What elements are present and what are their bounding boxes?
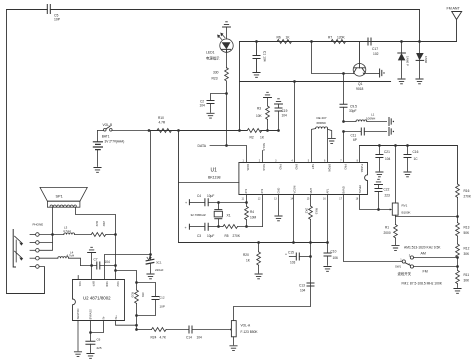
svg-text:VOL-A: VOL-A [241,323,251,327]
ground C16 [404,172,411,177]
wire ground rail y242 [179,242,328,244]
svg-text:R20: R20 [243,253,249,257]
svg-text:R1: R1 [385,226,389,230]
resistor R12 [456,244,470,267]
capacitor C7 [81,257,116,269]
ground C2 [207,113,214,118]
node junction X1 top [217,201,220,204]
capacitor C9.5 [340,74,357,122]
svg-text:R3: R3 [257,107,261,111]
wire supply drop x178 [178,131,180,243]
capacitor C6 [86,333,102,353]
wire left rail [7,10,45,294]
node junction battery rail [148,129,151,132]
transistor Q1 [353,42,379,92]
svg-text:F-123 B50K: F-123 B50K [241,330,259,334]
node junction pin13 rail [309,241,312,244]
node junction C16 [406,144,409,147]
capacitor C16 [404,146,419,172]
node contact 5 [30,265,45,269]
svg-text:MUT: MUT [309,187,313,193]
op-chip U1 BK1198 body [208,163,368,195]
svg-text:C1 104: C1 104 [263,51,267,62]
wire pin8 riser to shield bus [359,146,361,163]
node junction DATA [225,144,228,147]
capacitor C2 [200,94,227,113]
svg-text:TUNE2: TUNE2 [358,184,362,193]
resistor R23 [212,52,229,93]
node junction R4 bottom [245,225,248,228]
potentiometer VOL-A [229,321,259,345]
inductor L4 [39,250,80,265]
svg-text:1K: 1K [286,36,291,40]
svg-text:SET: SET [311,164,315,169]
svg-text:DE 207: DE 207 [317,116,327,120]
svg-text:IN-: IN- [102,316,106,320]
ground VOL-A [230,346,237,351]
svg-text:16: 16 [323,198,326,201]
wire pin14 drop [327,195,329,243]
svg-text:R6: R6 [277,36,281,40]
connector jack at Q1 emitter [380,69,385,77]
node junction pin14 rail [326,241,329,244]
node junction FM tap [456,265,459,268]
svg-text:DATA: DATA [246,164,250,171]
svg-text:223: 223 [385,194,391,198]
svg-text:AM: AM [421,252,426,256]
svg-text:R24: R24 [151,335,157,339]
svg-text:3: 3 [275,159,277,162]
ground C1 [253,73,260,78]
svg-text:BYP: BYP [92,281,96,286]
svg-text:47K: 47K [141,292,145,297]
ground C21 [376,172,383,177]
capacitor C12 [137,295,165,315]
op-amp U2 body 4871/8002 [73,280,125,321]
svg-text:4.7K: 4.7K [160,335,167,339]
wire pin12 drop [293,195,295,243]
svg-text:XT2: XT2 [260,188,264,193]
node junction C22 bottom [377,208,380,211]
ground D1 [398,79,405,84]
svg-text:10M: 10M [250,216,257,220]
svg-text:32.768KHZ: 32.768KHZ [191,213,206,217]
resistor R4 [245,203,257,227]
svg-text:SHUTDN: SHUTDN [76,308,80,319]
resistor R1 [384,217,398,245]
svg-text:6P: 6P [353,138,357,142]
node junction L1 tap [342,120,345,123]
node junction R23-C2 [225,92,228,95]
connector jack L1 out [389,118,394,126]
wire U2 pin1 bottom to ground [77,321,79,351]
svg-text:PHONE: PHONE [33,223,44,227]
resistor R6 [271,36,312,44]
wire supply bus y130.5 [149,130,279,132]
svg-text:VDD: VDD [105,281,109,287]
node junction C11 tap [342,130,345,133]
svg-text:R11: R11 [464,273,470,277]
svg-text:FM: FM [423,269,428,273]
svg-text:106: 106 [333,256,339,260]
capacitor C19 [275,104,288,131]
switch SW1 band [395,253,414,276]
ground R11 [454,289,461,294]
capacitor C4 electrolytic [185,194,247,206]
resistor R3 [256,98,269,131]
svg-text:1K: 1K [246,259,251,263]
wire V+ drop to U2 [149,131,151,255]
node junction R2-R3 [266,129,269,132]
svg-text:22R: 22R [102,221,106,226]
svg-text:C13: C13 [299,284,305,288]
capacitor C1 [253,42,267,72]
label SCLK pin2 [262,143,266,163]
svg-text:1C: 1C [414,157,419,161]
svg-text:18: 18 [356,198,359,201]
svg-text:U2 4871/8002: U2 4871/8002 [83,296,111,301]
svg-text:C7: C7 [94,257,98,261]
node junction X1 bottom [217,225,220,228]
ground EC1 [147,274,154,279]
node junction R20b-C12 bottom [135,314,138,317]
svg-text:SP1: SP1 [56,194,63,198]
svg-text:BAT1: BAT1 [102,135,110,139]
power symbol R3 [264,92,272,97]
svg-text:R5: R5 [225,234,229,238]
resistor R9.5 [305,195,319,243]
wire pin15 to switch [344,195,403,262]
svg-text:R7: R7 [328,36,332,40]
svg-text:270K: 270K [233,234,241,238]
ground R1 [392,246,399,251]
resistor R20 47K [131,283,146,330]
svg-text:C3: C3 [197,234,201,238]
svg-text:13: 13 [274,198,277,201]
ground C6 [87,354,94,359]
pin numbers U1 [242,159,359,200]
svg-text:R23: R23 [212,77,218,81]
svg-text:AFL: AFL [325,188,329,193]
crystal X1 [191,203,231,227]
node junction SP1 lead at R22 [114,233,117,236]
node junction R16-R13 [456,215,459,218]
wire FM contact [414,266,458,268]
svg-text:104: 104 [105,260,111,264]
svg-text:33pF: 33pF [349,109,357,113]
resistor R13 [456,217,470,245]
potentiometer trimmer RV1 [390,203,411,217]
power symbol C22 [375,179,383,184]
node junction R24 left [135,328,138,331]
svg-text:BND: BND [295,164,299,170]
svg-text:9018: 9018 [356,87,364,91]
svg-text:SW1: SW1 [395,265,402,269]
svg-text:4: 4 [291,159,293,162]
svg-text:BAND: BAND [342,186,346,193]
wire LED column to DATA [226,94,228,146]
svg-text:X1: X1 [227,214,231,218]
node junction R2 left [238,129,241,132]
ground U2 pin1 [74,352,81,357]
wire branch to C12 [137,283,156,297]
label DATA [198,144,247,162]
wire U2 pin4 bottom to R24 [116,321,137,326]
pin labels U2 top [78,281,120,287]
wire AM contact [414,257,458,259]
svg-text:68R6D: 68R6D [317,121,327,125]
svg-text:6: 6 [324,159,326,162]
node contact 2 [30,241,39,245]
svg-text:104: 104 [300,289,306,293]
svg-text:R10: R10 [158,116,164,120]
svg-text:17: 17 [339,198,342,201]
ground pin11 [275,216,282,221]
svg-text:C10: C10 [331,249,337,253]
svg-text:5: 5 [308,159,310,162]
svg-text:103: 103 [290,261,296,265]
inductor L1 [344,113,387,122]
capacitor C11 [344,128,387,142]
ground R20 [255,274,262,279]
node junction C21 [378,144,381,147]
svg-text:R20: R20 [131,292,135,298]
svg-text:C12: C12 [159,295,165,299]
wire shield bus y146 [360,146,458,185]
resistor R10 [149,116,179,133]
svg-text:C6: C6 [97,337,101,341]
svg-text:R22: R22 [95,221,99,227]
power symbol C19 [275,99,283,104]
svg-text:102: 102 [373,52,379,56]
svg-text:12: 12 [258,198,261,201]
svg-text:C11: C11 [351,134,357,138]
capacitor C22 [375,185,390,210]
svg-text:RV1: RV1 [402,204,408,208]
svg-text:10K: 10K [256,114,263,118]
node junction R20 top [257,241,260,244]
capacitor EC1 electrolytic [146,255,163,274]
capacitor C5 [47,5,60,22]
connector phone jack body [13,230,22,268]
wire pin9.5 stub [246,195,248,203]
node contact 4 [30,256,39,260]
node junction SP1 left at contact1 wire [51,233,54,236]
node junction C7 line [90,264,93,267]
pin labels U1 bottom row [244,184,362,193]
power symbol LED supply [223,22,231,27]
pin labels U1 top row [246,164,364,173]
svg-text:TUNE1: TUNE1 [360,164,364,173]
svg-text:10μF: 10μF [207,194,214,198]
wire top right drop [419,10,421,42]
speaker SP1 [40,187,87,207]
ground IF coil [328,139,335,144]
svg-text:104: 104 [385,157,391,161]
wire VDD branch to U1 left pin [179,182,239,184]
svg-text:4.7R: 4.7R [159,121,166,125]
svg-text:3V 2*7#(AAA): 3V 2*7#(AAA) [105,140,125,144]
svg-text:100NH: 100NH [366,116,375,120]
svg-text:225: 225 [97,346,102,350]
svg-text:15: 15 [307,198,310,201]
svg-text:4.7uH: 4.7uH [63,229,71,233]
svg-text:C9.5: C9.5 [350,105,357,109]
wire U2 pin1 top stub [77,276,79,280]
svg-text:GND: GND [276,188,280,194]
node junction R20b-C12 top [135,281,138,284]
node junction pin9.5-R4 [245,201,248,204]
svg-text:XT1: XT1 [244,188,248,193]
node junction C15-C13 [309,255,312,258]
svg-text:R9.5: R9.5 [315,208,319,215]
svg-text:R2: R2 [250,136,254,140]
svg-text:C17: C17 [372,47,378,51]
svg-text:U1: U1 [211,168,218,174]
svg-text:2K2: 2K2 [305,208,309,214]
svg-text:PND: PND [278,164,282,170]
svg-text:+: + [285,253,287,257]
switch power on VOL [98,126,150,131]
svg-text:8: 8 [357,159,359,162]
svg-text:30K: 30K [464,279,471,283]
svg-text:LED1: LED1 [206,51,215,55]
svg-text:3C1: 3C1 [156,261,162,265]
wire top rail [7,9,420,11]
power symbol U2 supply [88,247,96,252]
wire V+ to U2 pin3 [105,255,151,280]
wire pin10 drop [262,195,264,227]
svg-text:+: + [185,226,187,230]
resistor R7 [312,36,369,44]
svg-text:50K: 50K [464,231,471,235]
node junction pin12 [292,241,295,244]
capacitor C3 electrolytic [185,223,219,238]
wire bus y81.5 [240,81,391,83]
svg-text:220uF: 220uF [155,268,164,272]
svg-text:BK1198: BK1198 [208,176,221,180]
capacitor C15 [285,251,311,265]
wire Q1 base [312,42,354,74]
wire SP1 right lead [76,207,116,270]
resistor R20 1K [243,243,261,274]
svg-text:VOL-B: VOL-B [103,123,113,127]
node junction C6 top [89,331,92,334]
wire SP1 left lead [39,207,52,242]
capacitor C14 [186,326,229,339]
resistor R22 [91,221,115,237]
svg-text:C22: C22 [384,188,390,192]
wire pin13 column down [234,243,311,321]
svg-text:VO1: VO1 [78,281,82,287]
svg-text:4.7uH: 4.7uH [67,254,75,258]
node junction R7 left [310,40,313,43]
svg-text:120K: 120K [337,36,346,40]
svg-text:R12: R12 [464,247,470,251]
wire U2 pin4 riser [115,271,117,280]
svg-text:C14: C14 [186,335,192,339]
svg-text:C4: C4 [197,194,201,198]
wire output branch right [116,271,137,283]
wire pin7 riser [343,132,345,163]
node contact 3 [30,243,53,253]
svg-text:+: + [185,201,187,205]
capacitor C21 [376,146,391,172]
svg-text:FM ANT: FM ANT [447,7,461,11]
svg-text:R4: R4 [250,210,254,214]
LED LED1 [206,27,233,61]
svg-text:1K: 1K [260,136,265,140]
node junction C1 tap [255,40,258,43]
svg-text:1N60 P: 1N60 P [406,56,410,66]
ground battery [94,168,101,173]
svg-text:10P: 10P [160,305,165,309]
wire U2 pin2 riser [91,253,93,280]
node junction base-C9.5 [342,72,345,75]
svg-text:330: 330 [213,71,219,75]
svg-text:104: 104 [282,114,288,118]
svg-text:C16: C16 [413,150,419,154]
capacitor C13 [299,283,314,293]
node junction pin4b [135,324,138,327]
resistor R2 [247,129,265,140]
svg-text:B100K: B100K [402,211,411,215]
svg-text:C19: C19 [282,109,288,113]
diode D1 [398,40,410,78]
svg-text:C15: C15 [288,251,294,255]
ground D2 [416,79,423,84]
svg-text:11: 11 [242,198,245,201]
battery BAT1 [93,131,124,167]
wire corner down from y41 [239,42,241,131]
svg-text:10P: 10P [54,18,61,22]
svg-text:SCLK: SCLK [262,164,266,171]
node junction C19 bottom [277,129,280,132]
capacitor C17 [368,38,402,56]
antenna FM ANT [447,7,462,42]
resistor R5 [219,225,263,239]
capacitor C10 [324,243,338,266]
connector jack C11 out [389,128,394,136]
node junction trimmer riser [394,144,397,147]
svg-text:2000: 2000 [384,231,391,235]
svg-text:FM1: 87.5-108.5 MHz 100K: FM1: 87.5-108.5 MHz 100K [402,282,443,286]
wire pin11 stub [278,195,280,216]
node contact 1 [30,233,39,237]
svg-text:10μF: 10μF [207,234,214,238]
node junction SP1 lead at C7 [114,264,117,267]
inductor IF coil DE207 [312,116,332,163]
svg-text:Q1: Q1 [358,82,363,86]
resistor R16 [456,184,472,217]
svg-text:IN+: IN+ [114,315,118,320]
svg-text:270K: 270K [464,195,472,199]
node junction AM tap [456,256,459,259]
wire main horizontal y41 [240,41,457,43]
svg-text:2: 2 [259,159,261,162]
svg-text:104: 104 [200,104,206,108]
inductor L3 [39,226,91,235]
svg-text:电源指示: 电源指示 [206,56,220,61]
svg-text:BYPASS: BYPASS [88,309,92,319]
svg-text:VCOM: VCOM [293,186,297,194]
svg-text:C21: C21 [384,150,390,154]
resistor R24 [137,328,189,340]
wire trimmer riser [395,146,397,204]
wire U2 pin2-pin3 bottom [91,321,104,333]
svg-text:30K: 30K [464,252,471,256]
wire pin4 riser [294,82,296,163]
